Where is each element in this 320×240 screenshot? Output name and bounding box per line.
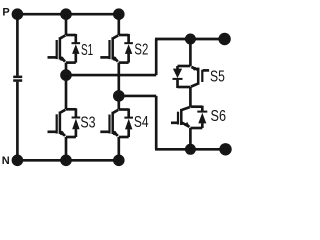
svg-text:P: P [2, 6, 9, 18]
transistor S4 (IGBT with diode) [119, 108, 129, 111]
svg-text:S3: S3 [80, 114, 95, 131]
node output terminal top [218, 33, 230, 45]
node N [12, 155, 24, 167]
wire phase A horizontal [66, 74, 156, 77]
svg-text:S4: S4 [134, 114, 149, 131]
node phase A junction [60, 69, 72, 81]
node bottom bus junction S3 [60, 155, 72, 167]
capacitor C1 plate top [13, 76, 22, 79]
wire top bus P to S2 [17, 13, 119, 16]
svg-text:S2: S2 [134, 41, 148, 58]
node phase B junction [113, 90, 125, 102]
wire top right bus [155, 38, 225, 41]
wire S2 emitter to phase B node [117, 63, 120, 96]
wire S4 collector lead [117, 96, 120, 110]
node S6 bottom junction [185, 144, 196, 155]
wire S3 emitter lead [65, 137, 68, 160]
svg-text:S6: S6 [211, 108, 227, 125]
wire S2 collector lead [117, 14, 120, 35]
wire S4 emitter lead [117, 137, 120, 160]
wire S5 to S6 link [189, 87, 192, 107]
node P [12, 8, 24, 20]
wire phase B horizontal [119, 95, 156, 98]
wire S3 collector lead [65, 75, 68, 109]
wire phase B dropper [155, 96, 158, 149]
wire bottom right bus [155, 148, 226, 151]
svg-text:N: N [2, 155, 10, 167]
wire S6 emitter lead [189, 128, 192, 149]
svg-text:S5: S5 [210, 68, 225, 85]
wire bottom bus N to S4 [17, 159, 119, 162]
wire S1 collector lead [65, 14, 68, 35]
wire S5 top lead [189, 39, 192, 66]
transistor S1 (IGBT with diode) [66, 34, 76, 37]
transistor S5 (IGBT with diode, inverted) [178, 65, 191, 68]
transistor S2 (IGBT with diode) [119, 34, 129, 37]
transistor S6 (IGBT with diode) [190, 105, 202, 108]
node S5 top junction [185, 34, 196, 45]
transistor S3 (IGBT with diode) [66, 108, 76, 111]
node bottom bus junction S4 [113, 155, 125, 167]
wire left DC rail lower [16, 82, 19, 161]
wire S1 emitter to phase A node [65, 63, 68, 76]
capacitor C1 plate bottom [13, 79, 22, 82]
wire left DC rail upper [16, 14, 19, 75]
node top bus junction S2 [113, 8, 125, 20]
svg-text:S1: S1 [81, 42, 93, 59]
node top bus junction S1 [60, 8, 72, 20]
wire phase A riser [155, 39, 158, 75]
node output terminal bottom [219, 143, 231, 155]
